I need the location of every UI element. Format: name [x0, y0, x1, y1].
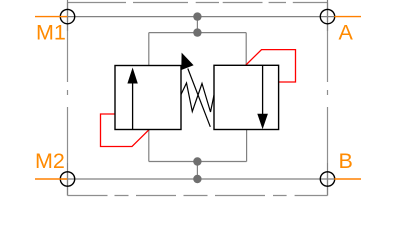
pilot line left (red) from bottom port to left side of valve 1 — [101, 114, 149, 147]
flow arrow up (left square) shaft — [132, 81, 134, 130]
node junction top rail — [193, 12, 201, 20]
node junction top branch — [193, 28, 201, 36]
enclosure dash-dot border right — [327, 3, 329, 196]
port stub M1 (orange) — [35, 16, 67, 18]
node junction bottom branch — [193, 157, 201, 165]
port circle B — [320, 172, 334, 186]
wire top branch drop — [196, 17, 198, 33]
enclosure dash-dot border bottom — [68, 195, 328, 197]
wire top branch horizontal — [149, 32, 246, 34]
wire bottom branch horizontal — [149, 161, 247, 163]
wire top branch left vertical — [148, 33, 150, 66]
svg-text:A: A — [339, 21, 354, 45]
port A crosshair vertical — [327, 0, 329, 31]
wire bottom rail (port M2 to port B) — [60, 178, 334, 180]
pilot line right (red) from top port to right side of valve 2 — [246, 50, 296, 82]
wire top branch right vertical — [245, 33, 247, 66]
port B crosshair vertical — [327, 163, 329, 196]
flow arrow down (right square) head — [257, 114, 268, 129]
port stub A (orange) — [334, 16, 361, 18]
valve body left square — [115, 66, 181, 130]
wire bottom branch right vertical — [246, 130, 248, 162]
port stub M2 (orange) — [35, 178, 67, 180]
enclosure dash-dot border top — [68, 2, 328, 4]
port circle M1 — [60, 9, 74, 23]
svg-text:B: B — [339, 149, 353, 173]
spring — [181, 83, 214, 112]
enclosure dash-dot border left — [67, 3, 69, 196]
port circle M2 — [60, 172, 74, 186]
wire bottom branch drop — [196, 162, 198, 180]
port circle A — [320, 9, 334, 23]
wire bottom branch left vertical — [148, 130, 150, 162]
wire top rail (port M1 to port A) — [60, 16, 334, 18]
port stub B (orange) — [334, 178, 361, 180]
valve body right square — [214, 65, 279, 129]
adjustment arrow shaft (diagonal) — [188, 69, 211, 127]
node junction bottom rail — [193, 175, 201, 183]
port M2 crosshair vertical — [67, 163, 69, 196]
adjustment arrow head — [181, 53, 193, 70]
flow arrow down (right square) shaft — [262, 65, 264, 115]
port M1 crosshair vertical — [67, 0, 69, 31]
svg-text:M1: M1 — [36, 21, 66, 45]
svg-text:M2: M2 — [35, 149, 65, 173]
flow arrow up (left square) head — [127, 68, 137, 84]
